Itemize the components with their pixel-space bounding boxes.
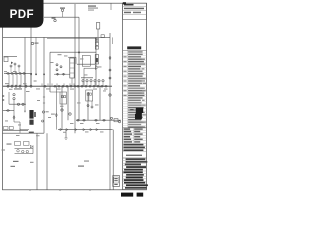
instr lead L2 [14, 65, 16, 72]
pipe pump suction row [4, 72, 32, 74]
bottoms valve BV-3 [94, 119, 98, 121]
process valve PV-5 [96, 85, 100, 87]
instrument FE-52 [42, 111, 44, 113]
drain valve DV-1 [6, 109, 10, 111]
instrument TI-31 [13, 94, 15, 96]
instrument CT-1 [56, 64, 58, 66]
instrument TI-32 [13, 98, 15, 100]
riser 62 [61, 86, 63, 129]
tag text 10 [50, 61, 54, 64]
manifold box b [95, 42, 98, 45]
riser 50 [49, 52, 51, 92]
footer bar right [137, 193, 144, 197]
approvals table [123, 128, 147, 143]
tee mark 66 [65, 138, 68, 139]
riser 110 [109, 33, 111, 190]
tag text 29 [16, 134, 20, 137]
riser 44 [43, 37, 45, 133]
title note text 3 [88, 9, 94, 12]
riser 66 drop [65, 130, 67, 138]
pump row label [14, 88, 22, 89]
tag text 11 [64, 55, 68, 58]
column C-1 tray 2 [70, 67, 74, 69]
title note text 2 [88, 7, 98, 10]
drop line d2 [12, 73, 14, 86]
label mid note [84, 161, 89, 162]
inline valve VL-8 [76, 85, 80, 87]
column C-1 tray 3 [70, 72, 74, 74]
manifold box c [95, 46, 98, 49]
label pipeline spec [29, 132, 34, 133]
tag text 18 [70, 122, 74, 125]
label area note 2 [78, 166, 84, 167]
pump P-1 [7, 85, 9, 88]
wire FI-1 lead [62, 11, 64, 17]
tag PI-1 [52, 18, 56, 19]
riser 9 [8, 92, 10, 104]
exchanger E-2 tube a [87, 93, 89, 95]
pipe outlet right [58, 129, 113, 131]
instrument AI-54 [109, 77, 111, 79]
tag text 4 [57, 88, 61, 91]
instrument CT-2 [60, 66, 62, 68]
tag text 20 [96, 122, 100, 125]
valve DV-2 [13, 116, 15, 120]
svg-text:PDF: PDF [10, 8, 34, 21]
tag text 3 [46, 88, 50, 91]
pipe main process line [3, 85, 112, 87]
drop line d6 [30, 73, 32, 86]
bl box a [4, 127, 9, 130]
column C-1 outlet stub [71, 78, 73, 86]
tag text 31 [5, 120, 8, 123]
instrument IP-2 [86, 80, 88, 82]
utility skid UP-1 [15, 142, 34, 154]
pump P-3 [15, 85, 17, 88]
outlet valve VO-3 [75, 129, 77, 131]
wire top left vertical [30, 20, 32, 37]
right column left border [122, 3, 124, 190]
stub s2 [47, 83, 49, 86]
suction valve SV-2 [10, 72, 14, 74]
pipe drain line [3, 110, 14, 112]
skid tag [7, 144, 12, 145]
bottoms valve BV-2 [82, 119, 86, 121]
tag text 2 [36, 88, 40, 91]
joint dot b [35, 74, 37, 76]
riser 47 down [46, 133, 48, 190]
tag text 27 [100, 131, 104, 134]
tag text 28 [63, 131, 66, 134]
instrument LC-33 [17, 103, 19, 105]
e1 inlet [50, 91, 60, 93]
valve V-9 [95, 65, 98, 69]
riser 96 [95, 37, 97, 86]
instrument BM-2 [91, 106, 93, 108]
joint dot a [30, 74, 32, 76]
instrument IP-1 [82, 80, 84, 82]
label riser56 [51, 114, 55, 115]
feed valve FV-1 [56, 73, 60, 75]
tag text 6 [93, 88, 97, 91]
inline valve VL-2 [53, 85, 57, 87]
tag text 21 [48, 116, 51, 119]
suction valve SV-5 [22, 72, 26, 74]
wire inner drop [83, 68, 85, 86]
lead IP-2 [86, 82, 88, 86]
pipe enclosure top [50, 51, 96, 53]
drop line d5 [24, 73, 26, 86]
tag text 25 [60, 105, 64, 108]
pipe header double [47, 37, 96, 39]
revision rows [123, 144, 147, 152]
instrument IP-5 [98, 80, 100, 82]
hatched drum D-1 [29, 110, 35, 125]
outlet valve VO-5 [90, 129, 92, 131]
meter box [114, 119, 118, 122]
drop line d4 [20, 73, 22, 86]
tag text 16 [77, 102, 81, 105]
frame tick top [110, 3, 112, 10]
tag text 0 [5, 82, 9, 85]
wire RV-1 drop [97, 29, 99, 37]
elbow run [14, 111, 29, 130]
lead IP-4 [94, 82, 96, 86]
valve on riser 56 [55, 113, 57, 117]
analyzer box AX-1 [101, 35, 104, 38]
pipe reflux line [9, 103, 26, 105]
PDF badge [0, 0, 44, 28]
notes box rule 1 [123, 6, 147, 8]
outlet valve VO-6 [96, 129, 98, 131]
process valve PV-7 [104, 85, 108, 87]
bottoms valve BV-4 [102, 119, 106, 121]
stub 112 [112, 37, 114, 44]
tag text 24 [9, 88, 13, 91]
tag text 14 [98, 66, 102, 69]
filter F-1 shell [95, 55, 98, 65]
tag FE-52 [46, 111, 49, 112]
tag text 22 [37, 99, 40, 102]
wire e2 link [88, 92, 90, 101]
stamp speck [130, 109, 133, 110]
tag text 23 [26, 90, 30, 93]
riser 100 [99, 86, 101, 120]
pump P-2 [11, 85, 13, 88]
suction valve SV-3 [14, 72, 18, 74]
frame tick left b [3, 95, 5, 97]
outlet valve VO-1 [60, 129, 62, 131]
joint dot c [43, 74, 45, 76]
inline valve VL-5 [65, 85, 69, 87]
instrument tag FI-1 [60, 8, 65, 9]
inline valve VL-6 [69, 85, 73, 87]
instrument PI-1 [54, 19, 56, 21]
instr lead L3 [18, 67, 20, 72]
arrow T-1 [11, 62, 13, 65]
frame tick left [3, 99, 5, 101]
stub s6 [69, 83, 71, 86]
instrument IP-4 [94, 80, 96, 82]
process valve PV-4 [92, 85, 96, 87]
instrument AI-53 [109, 69, 111, 71]
tag text 1 [23, 82, 27, 85]
sheet frame [3, 3, 147, 190]
instrument FI-1 [61, 9, 63, 11]
exchanger E-1 tube b [64, 96, 66, 98]
label left note [11, 166, 16, 167]
notes text row 2 [124, 8, 144, 10]
title block [123, 158, 148, 189]
stub s7 [73, 83, 75, 86]
instrument LG-41 [61, 109, 63, 111]
wire elbow bl [19, 129, 21, 134]
pump P-4 [19, 85, 21, 88]
tag text 26 [85, 131, 89, 134]
tag text 15 [103, 90, 106, 93]
tag text 17 [95, 104, 99, 107]
exchanger E-1 tube a [61, 96, 63, 98]
instrument CT-3 [56, 69, 58, 71]
wire e2 link b [91, 101, 93, 106]
wire stub left [4, 56, 18, 58]
wire inner top [84, 67, 96, 69]
instrument IP-3 [90, 80, 92, 82]
exchanger E-2 box [86, 90, 93, 101]
tag text 9 [4, 70, 7, 73]
notes box rule 2 [123, 10, 147, 12]
tag text 7 [104, 88, 108, 91]
wire header drop [78, 17, 80, 120]
tag LI-21 [35, 43, 39, 44]
bl box b [9, 127, 13, 130]
arrow head 24 [24, 111, 26, 113]
feed valve FV-2 [62, 73, 66, 75]
pump P-6 [30, 85, 32, 88]
suction valve SV-4 [18, 72, 22, 74]
pump P-5 [25, 85, 27, 88]
instrument cluster PI-60 [10, 65, 12, 67]
notes text row 3a [124, 12, 131, 14]
tag text 19 [80, 122, 84, 125]
title note text [88, 6, 96, 7]
riser 36 [35, 37, 37, 74]
label area note [13, 161, 19, 162]
notes text row 3b [133, 12, 141, 14]
notes corner mark [123, 2, 126, 4]
inline valve VL-3 [57, 85, 61, 87]
riser 25 [24, 37, 26, 104]
relief device RV-1 [96, 23, 99, 30]
riser 37 down [36, 133, 38, 190]
pipe outlet left [3, 132, 45, 134]
column C-1 shell [70, 58, 74, 78]
process valve PV-1 [80, 85, 84, 87]
table column divider [126, 50, 128, 127]
process valve PV-3 [88, 85, 92, 87]
instrument PT-51 [109, 94, 111, 96]
suction valve SV-1 [6, 72, 10, 74]
table header underline [123, 49, 147, 51]
instrument IP-6 [102, 80, 104, 82]
enclosure right top [68, 56, 76, 58]
wire top header [44, 16, 79, 18]
doc ref row [126, 155, 142, 156]
tag text 5 [70, 88, 74, 91]
riser 14b [13, 100, 15, 111]
instrument FQ-52b [42, 120, 44, 122]
lead IP-3 [90, 82, 92, 86]
exchanger E-2 tube b [90, 93, 92, 95]
instrument PI-35 [22, 103, 24, 105]
pipe main header A [3, 36, 110, 38]
manifold mark [96, 39, 98, 40]
lead IP-5 [98, 82, 100, 86]
exchanger E-1 box [60, 92, 67, 104]
pipe transfer line [77, 63, 96, 65]
frame tick bottom b [59, 190, 61, 191]
tag text 13 [84, 74, 88, 77]
process valve PV-2 [84, 85, 88, 87]
tag text 30 [36, 134, 40, 137]
line list rows [123, 51, 147, 128]
outlet valve VO-4 [83, 129, 85, 131]
tag text 32 [18, 124, 21, 127]
instrument LT-42 [69, 113, 71, 115]
inline valve VL-1 [43, 85, 47, 87]
riser 113 [112, 130, 114, 190]
tag text 12 [80, 58, 84, 61]
tag col label [58, 54, 62, 55]
notes text row 1 [124, 4, 134, 6]
frame tick bottom c [89, 190, 91, 191]
label bl note [30, 162, 34, 163]
riser 31 [30, 37, 32, 86]
tank T-1 [4, 57, 8, 62]
vent 88 [87, 92, 89, 120]
stub s4 [56, 83, 58, 86]
process valve PV-6 [100, 85, 104, 87]
stub s1 [41, 83, 43, 86]
bl band [3, 129, 28, 132]
mark riser44 b [43, 102, 45, 104]
riser 75 [74, 4, 76, 133]
footer bar left [121, 193, 133, 197]
manifold box a [95, 39, 98, 42]
pipe tags band [81, 77, 93, 78]
lead IP-6 [102, 82, 104, 86]
package unit box [82, 56, 90, 67]
drop line d3 [16, 73, 18, 86]
instrument BM-1 [87, 105, 89, 107]
lead IP-1 [82, 82, 84, 86]
column C-1 tray 1 [70, 62, 74, 64]
mark riser44 a [43, 96, 45, 98]
valve on riser 110 [109, 56, 111, 60]
stub s3 [51, 83, 53, 86]
junction dot 79 [78, 52, 80, 54]
instrument cluster PI-62 [18, 65, 20, 67]
meter M-2 [119, 121, 121, 123]
pipe bottoms line [76, 119, 121, 121]
table header band [127, 46, 141, 49]
inline valve VL-4 [61, 85, 65, 87]
enclosure right drop [75, 57, 77, 64]
instrument cluster PI-61 [14, 63, 16, 65]
notes box frame [123, 3, 147, 19]
meter M-1 [111, 117, 113, 119]
cluster label a [34, 81, 37, 82]
stamp blob [135, 108, 143, 120]
filter hatch [96, 58, 98, 62]
frame tick bottom a [29, 190, 31, 191]
key plan box [113, 176, 120, 187]
stub s5 [63, 83, 65, 86]
riser 56 [55, 86, 57, 129]
inline valve VL-7 [73, 85, 77, 87]
notes box rule 3 [123, 14, 147, 16]
outlet valve VO-2 [66, 129, 68, 131]
tag text 8 [13, 70, 17, 73]
instr lead L1 [10, 67, 12, 72]
skid note [2, 150, 6, 151]
bottoms valve BV-1 [76, 119, 80, 121]
instrument LI-21 [31, 42, 33, 44]
drop line d1 [8, 73, 10, 86]
arrow drop 24 [24, 104, 26, 111]
riser 68 [67, 86, 69, 120]
pipe C-1 feed [54, 73, 70, 75]
